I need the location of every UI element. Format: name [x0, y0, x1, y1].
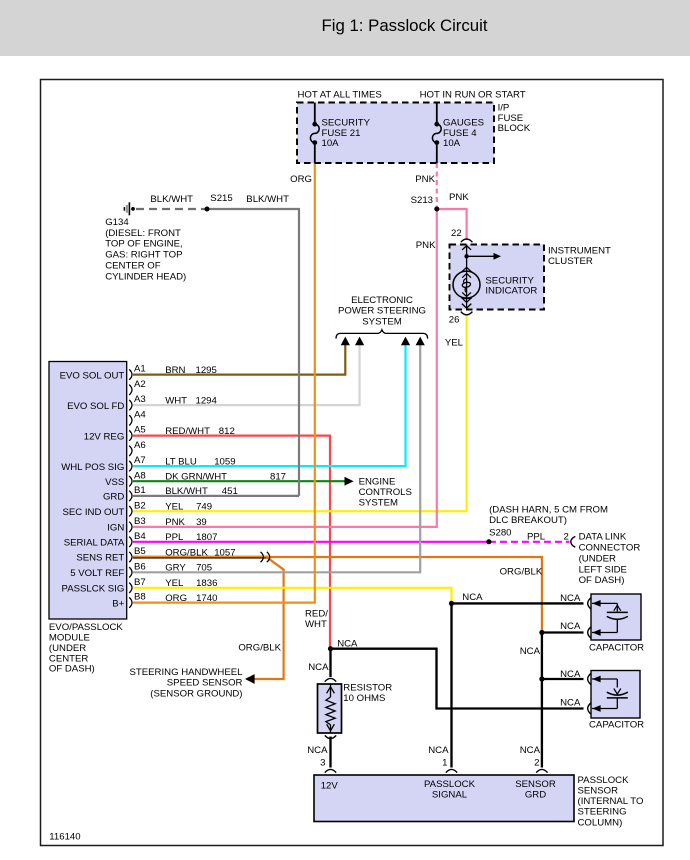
- svg-text:3: 3: [320, 758, 325, 769]
- svg-text:EVO/PASSLOCK: EVO/PASSLOCK: [49, 622, 124, 633]
- svg-text:CLUSTER: CLUSTER: [548, 256, 593, 267]
- svg-text:SYSTEM: SYSTEM: [362, 316, 401, 327]
- svg-text:(UNDER: (UNDER: [49, 643, 86, 654]
- svg-text:12V: 12V: [321, 781, 339, 792]
- svg-text:749: 749: [196, 502, 212, 513]
- svg-text:DATA LINK: DATA LINK: [579, 532, 627, 543]
- svg-text:A2: A2: [134, 379, 146, 390]
- svg-text:SIGNAL: SIGNAL: [432, 789, 468, 800]
- svg-text:RED/: RED/: [305, 608, 328, 619]
- svg-text:2: 2: [564, 532, 569, 543]
- svg-text:GRD: GRD: [103, 492, 124, 503]
- svg-text:26: 26: [449, 314, 460, 325]
- svg-text:(DASH HARN, 5 CM FROM: (DASH HARN, 5 CM FROM: [489, 505, 608, 516]
- svg-text:1059: 1059: [214, 456, 235, 467]
- svg-text:SENS RET: SENS RET: [76, 553, 124, 564]
- svg-text:YEL: YEL: [165, 578, 184, 589]
- svg-text:NCA: NCA: [560, 593, 581, 604]
- svg-text:G134: G134: [105, 217, 129, 228]
- svg-text:1: 1: [442, 758, 447, 769]
- svg-text:BLK/WHT: BLK/WHT: [150, 194, 193, 205]
- svg-text:HOT AT ALL TIMES: HOT AT ALL TIMES: [298, 89, 382, 100]
- svg-text:RED/WHT: RED/WHT: [165, 426, 210, 437]
- svg-text:STEERING HANDWHEEL: STEERING HANDWHEEL: [129, 667, 243, 678]
- svg-text:(DIESEL: FRONT: (DIESEL: FRONT: [105, 228, 181, 239]
- svg-text:SEC IND OUT: SEC IND OUT: [62, 507, 124, 518]
- svg-text:DK GRN/WHT: DK GRN/WHT: [165, 472, 227, 483]
- svg-text:PPL: PPL: [165, 532, 184, 543]
- svg-text:CYLINDER HEAD): CYLINDER HEAD): [105, 271, 186, 282]
- svg-text:NCA: NCA: [560, 669, 581, 680]
- svg-text:10 OHMS: 10 OHMS: [343, 693, 385, 704]
- svg-text:LEFT SIDE: LEFT SIDE: [579, 564, 627, 575]
- svg-text:VSS: VSS: [105, 477, 124, 488]
- svg-text:S213: S213: [411, 195, 433, 206]
- svg-text:22: 22: [451, 228, 462, 239]
- svg-text:705: 705: [196, 563, 212, 574]
- svg-text:LT BLU: LT BLU: [165, 456, 197, 467]
- svg-text:SENSOR: SENSOR: [515, 779, 556, 790]
- svg-text:ORG: ORG: [165, 593, 187, 604]
- svg-text:BLK/WHT: BLK/WHT: [165, 486, 208, 497]
- svg-text:NCA: NCA: [337, 638, 358, 649]
- svg-text:PASSLCK SIG: PASSLCK SIG: [62, 584, 125, 595]
- svg-text:1294: 1294: [196, 395, 218, 406]
- svg-text:A8: A8: [134, 470, 146, 481]
- svg-text:WHL POS SIG: WHL POS SIG: [61, 462, 124, 473]
- svg-text:EVO SOL FD: EVO SOL FD: [67, 401, 124, 412]
- svg-text:NCA: NCA: [308, 662, 329, 673]
- svg-text:OF DASH): OF DASH): [49, 664, 95, 675]
- svg-text:B6: B6: [134, 561, 146, 572]
- svg-text:TOP OF ENGINE,: TOP OF ENGINE,: [105, 239, 182, 250]
- svg-text:A7: A7: [134, 455, 146, 466]
- svg-text:2: 2: [534, 758, 539, 769]
- svg-text:ORG/BLK: ORG/BLK: [500, 566, 543, 577]
- svg-text:EVO SOL OUT: EVO SOL OUT: [60, 370, 125, 381]
- svg-text:COLUMN): COLUMN): [578, 817, 623, 828]
- svg-text:817: 817: [270, 472, 286, 483]
- svg-text:CAPACITOR: CAPACITOR: [589, 643, 644, 654]
- svg-text:PNK: PNK: [165, 517, 185, 528]
- svg-text:SYSTEM: SYSTEM: [359, 497, 398, 508]
- svg-text:S280: S280: [489, 527, 511, 538]
- svg-text:PPL: PPL: [527, 532, 546, 543]
- svg-text:12V REG: 12V REG: [84, 431, 125, 442]
- svg-text:NCA: NCA: [428, 745, 449, 756]
- svg-text:A5: A5: [134, 425, 146, 436]
- svg-text:1740: 1740: [196, 593, 217, 604]
- svg-text:B7: B7: [134, 577, 146, 588]
- svg-text:POWER STEERING: POWER STEERING: [338, 306, 426, 317]
- svg-text:CENTER: CENTER: [49, 653, 89, 664]
- svg-text:(UNDER: (UNDER: [579, 553, 616, 564]
- svg-text:39: 39: [196, 517, 207, 528]
- svg-text:A6: A6: [134, 440, 146, 451]
- svg-text:1295: 1295: [196, 365, 217, 376]
- svg-text:PNK: PNK: [415, 174, 435, 185]
- svg-text:(INTERNAL TO: (INTERNAL TO: [578, 796, 644, 807]
- svg-text:GRY: GRY: [165, 563, 186, 574]
- svg-text:NCA: NCA: [560, 698, 581, 709]
- svg-text:SERIAL DATA: SERIAL DATA: [64, 538, 125, 549]
- svg-text:BLOCK: BLOCK: [498, 123, 531, 134]
- svg-text:INDICATOR: INDICATOR: [485, 286, 537, 297]
- svg-text:CONNECTOR: CONNECTOR: [579, 543, 641, 554]
- svg-text:10A: 10A: [443, 138, 461, 149]
- svg-text:STEERING: STEERING: [578, 807, 627, 818]
- svg-text:Fig 1: Passlock Circuit: Fig 1: Passlock Circuit: [322, 16, 488, 35]
- svg-text:451: 451: [222, 486, 238, 497]
- svg-text:B4: B4: [134, 531, 146, 542]
- svg-text:PNK: PNK: [449, 192, 469, 203]
- svg-text:B3: B3: [134, 516, 146, 527]
- svg-text:B2: B2: [134, 500, 146, 511]
- svg-text:PASSLOCK: PASSLOCK: [578, 775, 630, 786]
- svg-text:S215: S215: [210, 193, 232, 204]
- svg-text:ELECTRONIC: ELECTRONIC: [351, 295, 413, 306]
- svg-text:10A: 10A: [322, 138, 340, 149]
- svg-text:NCA: NCA: [560, 621, 581, 632]
- svg-text:B5: B5: [134, 546, 146, 557]
- svg-text:5 VOLT REF: 5 VOLT REF: [70, 568, 124, 579]
- svg-text:116140: 116140: [49, 831, 80, 842]
- svg-text:(SENSOR GROUND): (SENSOR GROUND): [150, 688, 242, 699]
- svg-text:NCA: NCA: [462, 592, 483, 603]
- svg-text:ORG/BLK: ORG/BLK: [165, 547, 208, 558]
- svg-text:WHT: WHT: [305, 619, 327, 630]
- svg-text:YEL: YEL: [445, 338, 464, 349]
- svg-text:CAPACITOR: CAPACITOR: [589, 720, 644, 731]
- svg-text:BRN: BRN: [165, 365, 185, 376]
- svg-text:WHT: WHT: [165, 395, 187, 406]
- svg-text:B8: B8: [134, 592, 146, 603]
- svg-text:1057: 1057: [214, 547, 235, 558]
- svg-text:PASSLOCK: PASSLOCK: [424, 779, 476, 790]
- svg-text:SENSOR: SENSOR: [578, 786, 619, 797]
- svg-text:CONTROLS: CONTROLS: [359, 487, 412, 498]
- svg-text:B+: B+: [112, 598, 124, 609]
- svg-text:NCA: NCA: [307, 745, 328, 756]
- svg-text:SPEED SENSOR: SPEED SENSOR: [167, 678, 243, 689]
- svg-text:DLC BREAKOUT): DLC BREAKOUT): [489, 515, 567, 526]
- svg-text:OF DASH): OF DASH): [579, 575, 625, 586]
- svg-text:GRD: GRD: [525, 789, 546, 800]
- svg-text:1807: 1807: [196, 532, 217, 543]
- svg-text:IGN: IGN: [107, 523, 124, 534]
- svg-text:INSTRUMENT: INSTRUMENT: [548, 246, 611, 257]
- svg-text:A1: A1: [134, 364, 146, 375]
- svg-text:BLK/WHT: BLK/WHT: [246, 194, 289, 205]
- svg-text:B1: B1: [134, 485, 146, 496]
- svg-text:MODULE: MODULE: [49, 632, 90, 643]
- svg-text:ORG: ORG: [290, 174, 312, 185]
- svg-text:CENTER OF: CENTER OF: [105, 260, 161, 271]
- svg-text:A3: A3: [134, 394, 146, 405]
- svg-text:PNK: PNK: [416, 240, 436, 251]
- svg-text:ENGINE: ENGINE: [359, 476, 396, 487]
- svg-text:NCA: NCA: [520, 646, 541, 657]
- svg-text:NCA: NCA: [520, 745, 541, 756]
- svg-text:HOT IN RUN OR START: HOT IN RUN OR START: [420, 89, 526, 100]
- svg-text:YEL: YEL: [165, 502, 184, 513]
- svg-text:812: 812: [219, 426, 235, 437]
- svg-text:A4: A4: [134, 409, 146, 420]
- svg-text:1836: 1836: [196, 578, 217, 589]
- svg-text:ORG/BLK: ORG/BLK: [238, 643, 281, 654]
- svg-text:GAS: RIGHT TOP: GAS: RIGHT TOP: [105, 250, 182, 261]
